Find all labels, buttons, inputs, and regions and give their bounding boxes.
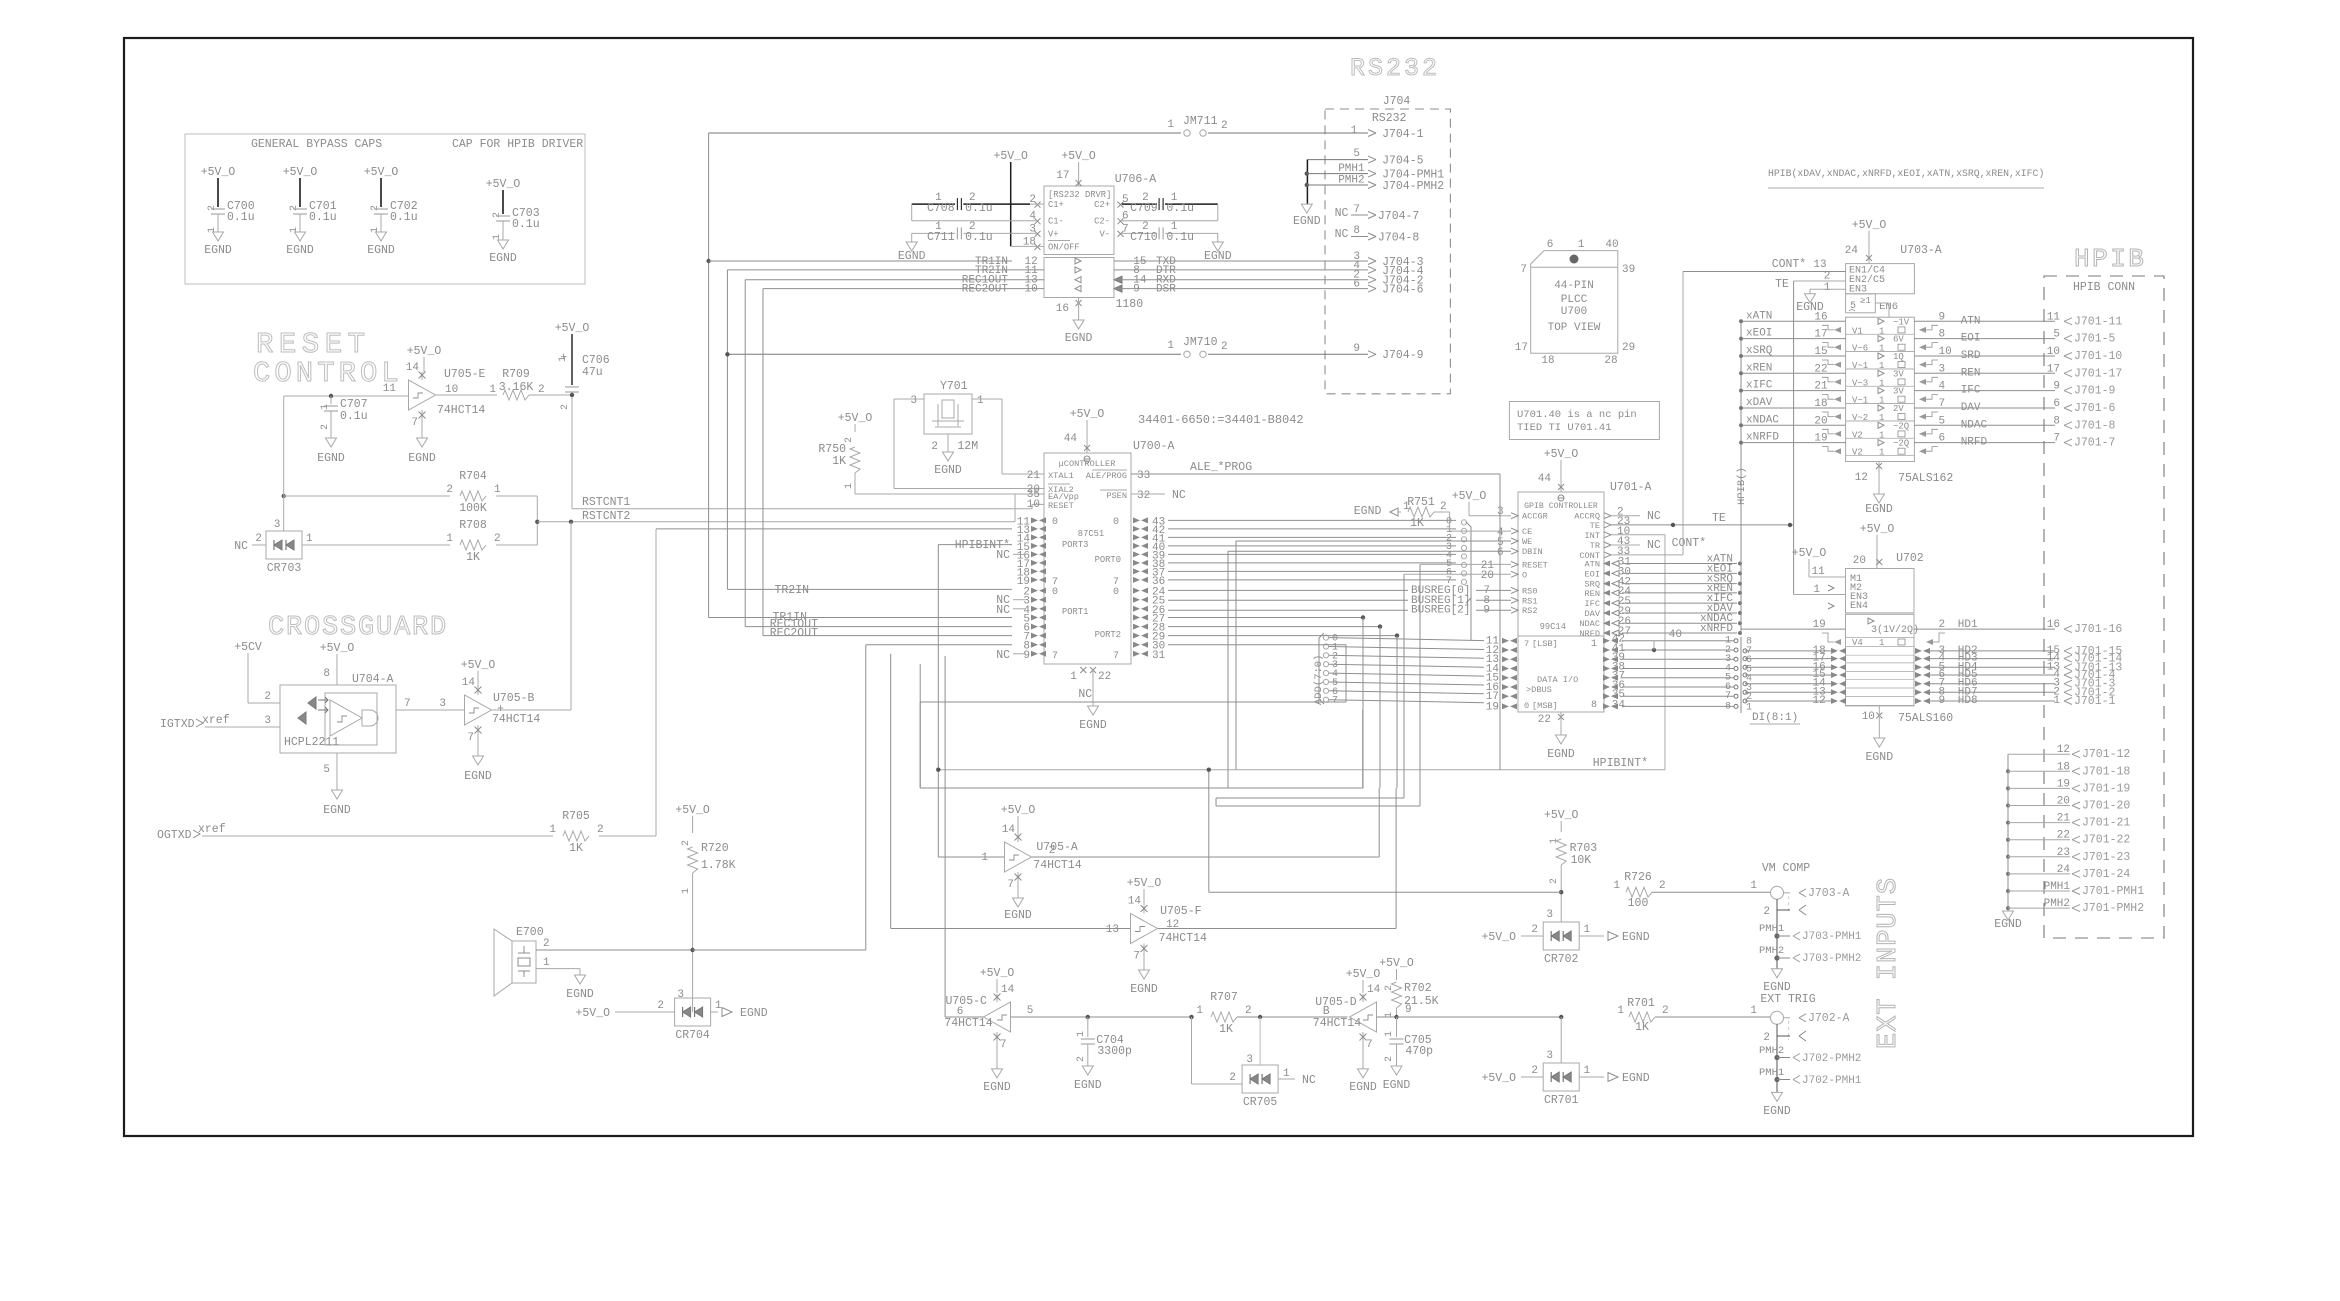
svg-text:EGND: EGND [1547, 748, 1575, 761]
svg-text:V2: V2 [1852, 448, 1863, 458]
ground EGND C704 [1082, 1066, 1093, 1075]
svg-text:7: 7 [467, 732, 474, 744]
resistor R704 [282, 494, 286, 498]
ground EGND C710 [1212, 242, 1223, 251]
svg-text:EGND: EGND [983, 1081, 1011, 1094]
svg-text:xNDAC: xNDAC [1746, 414, 1779, 426]
svg-text:RS232: RS232 [1350, 54, 1440, 83]
svg-text:R708: R708 [459, 519, 487, 532]
svg-text:J703-A: J703-A [1808, 887, 1850, 900]
U705-C wires [945, 1016, 984, 1018]
svg-text:J701-12: J701-12 [2082, 748, 2130, 761]
svg-text:U703-A: U703-A [1900, 244, 1942, 257]
svg-text:V~1: V~1 [1852, 361, 1868, 371]
svg-text:19: 19 [2057, 778, 2070, 790]
svg-text:J704-6: J704-6 [1382, 284, 1424, 297]
svg-text:2: 2 [1763, 906, 1770, 918]
ground EGND of C703 [498, 240, 509, 249]
svg-text:J701-18: J701-18 [2082, 765, 2130, 778]
svg-text:1: 1 [1813, 584, 1820, 596]
svg-text:0.1u: 0.1u [1166, 202, 1194, 215]
svg-text:J701-5: J701-5 [2074, 333, 2116, 346]
gate [362, 710, 378, 726]
U700 bottom pins 1 22 [1080, 667, 1086, 673]
svg-text:V2: V2 [1852, 430, 1863, 440]
svg-text:14: 14 [462, 677, 476, 689]
svg-text:24: 24 [1845, 245, 1859, 257]
svg-text:0.1u: 0.1u [965, 202, 993, 215]
svg-text:13: 13 [1813, 259, 1826, 271]
svg-text:TOP VIEW: TOP VIEW [1548, 322, 1601, 334]
svg-text:XTAL1: XTAL1 [1048, 471, 1074, 481]
ground EGND U705-D [1358, 1069, 1369, 1078]
svg-text:+5V_O: +5V_O [1852, 219, 1887, 232]
svg-text:0: 0 [1113, 517, 1119, 528]
svg-text:CONT*: CONT* [1772, 258, 1807, 271]
svg-text:RESET: RESET [1522, 560, 1548, 570]
svg-text:32: 32 [1137, 490, 1150, 502]
svg-text:8: 8 [1353, 225, 1360, 237]
svg-text:1: 1 [320, 404, 331, 410]
svg-text:1K: 1K [466, 551, 480, 564]
svg-text:xref: xref [198, 823, 226, 836]
svg-text:R726: R726 [1624, 871, 1652, 884]
svg-text:39: 39 [1622, 264, 1635, 276]
svg-text:PMH2: PMH2 [1759, 1045, 1784, 1057]
svg-text:J701-16: J701-16 [2074, 623, 2122, 636]
svg-text:VM COMP: VM COMP [1762, 862, 1810, 875]
svg-text:+5CV: +5CV [234, 641, 262, 654]
svg-text:44-PIN: 44-PIN [1554, 280, 1594, 292]
svg-text:xEOI: xEOI [1746, 328, 1772, 340]
svg-text:1: 1 [1879, 378, 1884, 388]
svg-text:1: 1 [681, 888, 692, 894]
svg-text:ATN: ATN [1961, 315, 1981, 327]
svg-text:1: 1 [446, 533, 453, 545]
svg-text:EGND: EGND [1865, 503, 1893, 516]
svg-text:6: 6 [1353, 279, 1360, 291]
svg-text:J701-PMH2: J701-PMH2 [2082, 902, 2144, 915]
svg-text:V4: V4 [1852, 638, 1863, 648]
svg-text:28: 28 [1604, 355, 1617, 367]
svg-text:REN: REN [1961, 367, 1981, 379]
svg-text:HPIB CONN: HPIB CONN [2073, 281, 2135, 294]
svg-text:V~3: V~3 [1852, 378, 1868, 388]
svg-text:2: 2 [494, 533, 501, 545]
svg-text:5: 5 [323, 764, 330, 776]
svg-text:J703-PMH2: J703-PMH2 [1802, 953, 1861, 965]
svg-text:EGND: EGND [1004, 909, 1032, 922]
svg-text:1: 1 [1750, 1005, 1757, 1017]
svg-text:2: 2 [289, 205, 300, 211]
svg-text:2: 2 [543, 938, 550, 950]
svg-text:7: 7 [1113, 651, 1119, 662]
svg-text:1: 1 [1879, 413, 1884, 423]
svg-text:xNRFD: xNRFD [1700, 623, 1733, 635]
ground EGND U703 EN3 [1805, 294, 1816, 303]
svg-text:EGND: EGND [1865, 751, 1893, 764]
svg-text:EGND: EGND [286, 244, 314, 257]
svg-text:7: 7 [404, 698, 411, 710]
svg-text:0.1u: 0.1u [390, 211, 418, 224]
ground EGND of C700 [213, 232, 224, 241]
left vertical wire bundle [708, 133, 710, 618]
svg-text:JM710: JM710 [1183, 336, 1218, 349]
svg-text:RS2: RS2 [1522, 606, 1537, 616]
svg-text:74HCT14: 74HCT14 [492, 713, 540, 726]
svg-text:≥1: ≥1 [1860, 296, 1871, 306]
svg-text:PMH2: PMH2 [2044, 898, 2070, 910]
svg-text:100K: 100K [459, 502, 487, 515]
svg-text:μCONTROLLER: μCONTROLLER [1059, 459, 1116, 469]
svg-text:1: 1 [1613, 880, 1620, 892]
svg-text:HD8: HD8 [1958, 695, 1978, 707]
op-amp U705-E inverter [409, 380, 436, 410]
svg-text:NC: NC [1172, 489, 1186, 502]
svg-text:3: 3 [1246, 1054, 1253, 1066]
svg-text:R707: R707 [1210, 991, 1238, 1004]
svg-text:EGND: EGND [1622, 1072, 1650, 1085]
bypass caps group box [185, 134, 585, 284]
resistor R707 [1189, 1015, 1193, 1019]
svg-text:NC: NC [996, 604, 1010, 617]
svg-text:74HCT14: 74HCT14 [944, 1017, 992, 1030]
svg-text:C1+: C1+ [1048, 200, 1064, 210]
svg-text:J701-PMH1: J701-PMH1 [2082, 885, 2144, 898]
svg-text:C711: C711 [927, 231, 955, 244]
svg-text:+5V_O: +5V_O [1544, 448, 1579, 461]
HD2-HD8 rows [1846, 654, 1915, 656]
svg-text:3: 3 [439, 698, 446, 710]
INT / HPIBINT box [1611, 534, 1665, 536]
svg-text:U700-A: U700-A [1133, 440, 1175, 453]
svg-text:1: 1 [977, 395, 984, 407]
border frame [124, 38, 2193, 1136]
svg-text:9: 9 [2053, 381, 2060, 393]
svg-text:EGND: EGND [934, 464, 962, 477]
svg-text:NC: NC [1302, 1074, 1316, 1087]
svg-text:RESET: RESET [1048, 501, 1074, 511]
svg-text:34401-6650:=34401-B8042: 34401-6650:=34401-B8042 [1138, 413, 1304, 427]
svg-text:9: 9 [1133, 284, 1140, 296]
pin 16 ground [1076, 300, 1082, 306]
svg-text:U701-A: U701-A [1610, 481, 1652, 494]
svg-text:6: 6 [1547, 239, 1554, 251]
svg-text:TE: TE [1775, 278, 1789, 291]
pin 22 EGND U701 [1558, 714, 1564, 720]
svg-text:GPIB CONTROLLER: GPIB CONTROLLER [1524, 502, 1598, 511]
svg-text:REN: REN [1585, 589, 1600, 599]
svg-text:EGND: EGND [1130, 983, 1158, 996]
svg-text:6V: 6V [1893, 335, 1904, 345]
svg-text:31: 31 [1152, 650, 1166, 662]
ground EGND J702 [1772, 1092, 1783, 1101]
svg-text:U705-D: U705-D [1315, 996, 1357, 1009]
svg-text:JM711: JM711 [1183, 115, 1218, 128]
svg-text:PMH1: PMH1 [1338, 163, 1365, 175]
svg-text:3: 3 [910, 395, 917, 407]
svg-text:16: 16 [2047, 619, 2060, 631]
svg-text:TE: TE [1590, 521, 1600, 531]
svg-text:0: 0 [1052, 517, 1058, 528]
svg-text:0: 0 [1113, 587, 1119, 598]
svg-text:EGND: EGND [1383, 1079, 1411, 1092]
J704-9 row with jumper JM710 [727, 353, 1181, 355]
svg-text:47u: 47u [582, 366, 603, 379]
svg-text:33: 33 [1137, 470, 1150, 482]
svg-text:CR703: CR703 [267, 562, 302, 575]
svg-text:+5V_O: +5V_O [980, 967, 1015, 980]
svg-text:2: 2 [657, 1000, 664, 1012]
bus DI(8:1) [1740, 637, 1742, 713]
ground EGND C711 [906, 242, 917, 251]
svg-text:87C51: 87C51 [1078, 529, 1104, 539]
svg-text:+5V_O: +5V_O [1860, 523, 1895, 536]
svg-text:11: 11 [2047, 311, 2061, 323]
svg-text:R709: R709 [502, 368, 530, 381]
svg-text:CR701: CR701 [1544, 1094, 1579, 1107]
svg-text:U700: U700 [1561, 306, 1587, 318]
svg-text:1: 1 [1824, 282, 1831, 294]
svg-text:V-: V- [1099, 229, 1110, 239]
note box U701.40 [1509, 402, 1659, 440]
svg-text:DATA I/O: DATA I/O [1537, 675, 1578, 685]
svg-text:1: 1 [1076, 1031, 1087, 1037]
U703 pin 12 ground [1876, 463, 1882, 469]
svg-text:J701-22: J701-22 [2082, 834, 2130, 847]
svg-text:PORT2: PORT2 [1095, 630, 1121, 640]
svg-text:1: 1 [1384, 1012, 1395, 1018]
svg-text:21: 21 [1027, 470, 1041, 482]
svg-text:RS232: RS232 [1372, 112, 1407, 125]
connector HPIB CONN dashed box [2044, 276, 2164, 938]
svg-text:1K: 1K [1410, 517, 1424, 530]
svg-text:V~1: V~1 [1852, 396, 1868, 406]
capacitor C707 [329, 394, 333, 398]
svg-text:12: 12 [1166, 919, 1179, 931]
svg-text:40: 40 [1605, 239, 1618, 251]
svg-text:0: 0 [1524, 701, 1529, 711]
svg-text:+5V_O: +5V_O [838, 412, 873, 425]
svg-text:74HCT14: 74HCT14 [1033, 859, 1081, 872]
svg-text:10: 10 [2047, 346, 2060, 358]
IC U706-A RS232 driver [1044, 186, 1114, 255]
svg-text:EGND: EGND [323, 804, 351, 817]
svg-text:J704-9: J704-9 [1382, 349, 1424, 362]
svg-text:10: 10 [1862, 711, 1875, 723]
svg-text:J701-24: J701-24 [2082, 868, 2130, 881]
svg-text:14: 14 [1367, 984, 1381, 996]
svg-text:NDAC: NDAC [1961, 419, 1988, 431]
ground EGND U705-C [992, 1069, 1003, 1078]
svg-text:IGTXD: IGTXD [160, 718, 195, 731]
svg-text:3: 3 [264, 715, 271, 727]
svg-text:NC: NC [1078, 688, 1092, 701]
svg-text:xATN: xATN [1746, 310, 1772, 322]
svg-text:EGND: EGND [408, 452, 436, 465]
svg-text:+5V_O: +5V_O [575, 1007, 610, 1020]
ground EGND Y701 [943, 452, 954, 461]
long wires U706 to J704 [1114, 260, 1175, 262]
svg-text:ON/OFF: ON/OFF [1048, 242, 1080, 252]
svg-text:C2-: C2- [1094, 217, 1110, 227]
svg-text:EGND: EGND [1079, 719, 1107, 732]
svg-text:CAP FOR HPIB DRIVER: CAP FOR HPIB DRIVER [452, 138, 583, 151]
svg-text:9: 9 [1939, 695, 1946, 707]
svg-text:1K: 1K [1219, 1023, 1233, 1036]
svg-text:+5V_O: +5V_O [201, 166, 236, 179]
svg-text:1: 1 [2053, 695, 2060, 707]
svg-text:GENERAL BYPASS CAPS: GENERAL BYPASS CAPS [251, 138, 382, 151]
svg-text:8: 8 [1725, 701, 1731, 712]
svg-text:2: 2 [1659, 880, 1666, 892]
svg-text:2: 2 [207, 205, 218, 211]
44-PIN PLCC U700 TOP VIEW [1531, 251, 1618, 354]
svg-text:U705-F: U705-F [1160, 905, 1202, 918]
svg-text:EGND: EGND [1622, 931, 1650, 944]
svg-text:11: 11 [1811, 566, 1825, 578]
svg-text:11: 11 [383, 383, 397, 395]
IC U701-A GPIB controller [1518, 492, 1604, 712]
svg-text:1: 1 [1879, 361, 1884, 371]
svg-text:EGND: EGND [1074, 1079, 1102, 1092]
svg-text:1: 1 [1070, 671, 1077, 683]
svg-text:REC2OUT: REC2OUT [770, 627, 818, 640]
U702 lower transceiver box [1846, 614, 1915, 706]
svg-text:1: 1 [1879, 396, 1884, 406]
svg-text:2: 2 [1549, 878, 1560, 884]
svg-text:2: 2 [1662, 1005, 1669, 1017]
svg-text:+5V_O: +5V_O [461, 659, 496, 672]
svg-text:0.1u: 0.1u [340, 410, 368, 423]
svg-text:J702-PMH1: J702-PMH1 [1802, 1075, 1862, 1087]
svg-text:1: 1 [844, 483, 855, 489]
svg-text:14: 14 [1001, 984, 1015, 996]
capacitor C705 [1396, 1017, 1398, 1037]
svg-text:CR705: CR705 [1243, 1096, 1278, 1109]
wire ALE vertical [1499, 474, 1501, 770]
resistor R709 [436, 394, 497, 396]
capacitor C708 [912, 203, 955, 205]
svg-text:+5V_O: +5V_O [1061, 150, 1096, 163]
svg-text:RS0: RS0 [1522, 586, 1537, 596]
svg-text:TR2IN: TR2IN [774, 584, 809, 597]
svg-text:1K: 1K [1635, 1021, 1649, 1034]
wire PORT2 row 28 [1168, 626, 1380, 628]
svg-text:RSTCNT2: RSTCNT2 [582, 510, 630, 523]
svg-text:Y701: Y701 [940, 380, 968, 393]
svg-text:J702-PMH2: J702-PMH2 [1802, 1053, 1861, 1065]
svg-text:1: 1 [1584, 924, 1591, 936]
svg-text:3: 3 [677, 989, 684, 1001]
svg-text:J704-1: J704-1 [1382, 128, 1424, 141]
svg-text:NC: NC [1647, 539, 1661, 552]
svg-text:CROSSGUARD: CROSSGUARD [268, 613, 448, 643]
svg-text:0.1u: 0.1u [965, 231, 993, 244]
svg-text:J701-21: J701-21 [2082, 817, 2130, 830]
svg-text:J704-PMH2: J704-PMH2 [1382, 180, 1444, 193]
svg-text:6: 6 [957, 1006, 964, 1018]
svg-text:1: 1 [1879, 326, 1884, 336]
svg-text:xIFC: xIFC [1746, 380, 1773, 392]
svg-text:2: 2 [538, 384, 545, 396]
svg-text:+5V_O: +5V_O [1481, 1072, 1516, 1085]
op-amp U705-C (points left) [984, 1002, 1011, 1032]
svg-text:J704: J704 [1383, 95, 1411, 108]
svg-text:+5V_O: +5V_O [1346, 968, 1381, 981]
svg-text:2: 2 [1384, 1056, 1395, 1062]
svg-text:1: 1 [306, 533, 313, 545]
svg-text:C708: C708 [927, 202, 955, 215]
svg-text:U705-E: U705-E [444, 368, 486, 381]
svg-text:+5V_O: +5V_O [555, 322, 590, 335]
svg-text:NC: NC [1335, 207, 1349, 220]
svg-text:CONTROL: CONTROL [253, 357, 403, 390]
svg-text:REC2OUT: REC2OUT [962, 284, 1009, 296]
CONT net [1611, 554, 1683, 556]
diode pair CR705 [1191, 1017, 1193, 1084]
ground EGND E700 [575, 975, 586, 984]
svg-text:V1: V1 [1852, 326, 1863, 336]
svg-text:2: 2 [370, 205, 381, 211]
svg-text:O: O [1522, 570, 1527, 580]
svg-text:+5V_O: +5V_O [1001, 804, 1036, 817]
svg-text:CE: CE [1522, 527, 1532, 537]
svg-text:R704: R704 [459, 470, 487, 483]
svg-text:PMH2: PMH2 [1759, 945, 1784, 957]
svg-text:19: 19 [1486, 701, 1499, 713]
U705-F wires [891, 928, 1130, 930]
J704 data rows [1175, 260, 1368, 262]
svg-text:NC: NC [1647, 510, 1661, 523]
svg-text:xREN: xREN [1746, 362, 1772, 374]
svg-text:20: 20 [1853, 555, 1866, 567]
svg-text:PORT0: PORT0 [1095, 555, 1121, 565]
svg-text:10: 10 [1027, 499, 1040, 511]
svg-text:DBIN: DBIN [1522, 547, 1543, 557]
svg-text:2: 2 [681, 840, 692, 846]
svg-text:17: 17 [1056, 170, 1069, 182]
svg-text:1: 1 [1879, 344, 1884, 354]
wire U701 pins 21 20 stubs [1419, 564, 1421, 806]
svg-text:+5V_O: +5V_O [675, 804, 710, 817]
svg-text:44: 44 [1538, 473, 1552, 485]
svg-text:13: 13 [1106, 924, 1119, 936]
svg-text:J701-6: J701-6 [2074, 402, 2116, 415]
svg-text:21: 21 [2057, 813, 2071, 825]
svg-text:EXT TRIG: EXT TRIG [1760, 993, 1815, 1006]
svg-text:HPIBINT*: HPIBINT* [955, 539, 1010, 552]
svg-text:EGND: EGND [204, 244, 232, 257]
svg-text:40: 40 [1669, 629, 1682, 641]
svg-text:75ALS162: 75ALS162 [1898, 472, 1953, 485]
svg-text:2: 2 [492, 212, 503, 218]
svg-text:+5V_O: +5V_O [993, 150, 1028, 163]
ground EGND U705-A [1013, 898, 1024, 907]
svg-text:7: 7 [1052, 651, 1058, 662]
svg-text:EGND: EGND [317, 452, 345, 465]
svg-text:>DBUS: >DBUS [1526, 685, 1552, 695]
svg-text:R705: R705 [562, 810, 590, 823]
svg-text:IFC: IFC [1585, 599, 1600, 609]
svg-text:C1-: C1- [1048, 217, 1064, 227]
svg-text:0.1u: 0.1u [1166, 231, 1194, 244]
svg-text:R702: R702 [1404, 982, 1432, 995]
svg-text:J704-8: J704-8 [1378, 232, 1420, 245]
wire input U705-E [284, 395, 408, 397]
svg-text:1: 1 [1283, 1068, 1290, 1080]
svg-text:+5V_O: +5V_O [283, 166, 318, 179]
